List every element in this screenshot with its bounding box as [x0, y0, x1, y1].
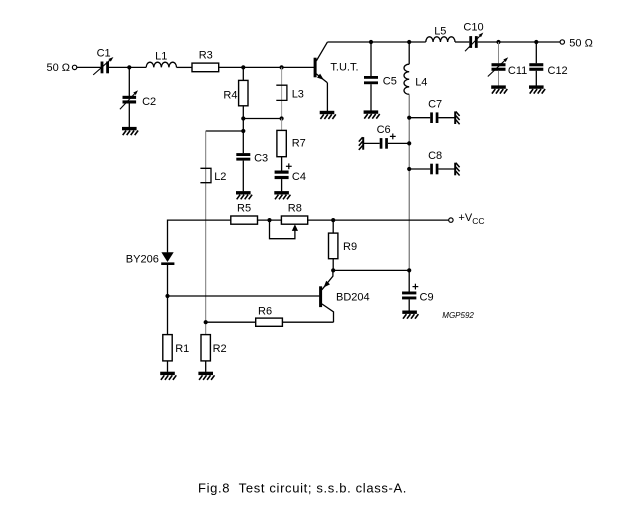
node below R4: [241, 116, 245, 120]
capacitor C4 (electrolytic): [275, 163, 292, 191]
svg-text:R7: R7: [292, 138, 306, 150]
svg-text:BY206: BY206: [126, 254, 159, 266]
resistor R1: [163, 335, 172, 361]
transistor T.U.T.: [314, 42, 328, 111]
wire base node to R1: [167, 296, 169, 335]
svg-text:C6: C6: [377, 124, 391, 136]
svg-text:L1: L1: [155, 50, 167, 62]
capacitor C6 (electrolytic feedthrough): [364, 134, 409, 149]
svg-text:R5: R5: [237, 203, 251, 215]
svg-text:C7: C7: [428, 99, 442, 111]
wire BY206 to base node: [167, 265, 169, 296]
wiper of R8: [270, 220, 299, 239]
node L2 junction: [241, 129, 245, 133]
wire node to L2 junction: [242, 119, 244, 132]
capacitor C3: [236, 131, 250, 191]
resistor R3: [192, 63, 219, 72]
inductor L4: [404, 42, 409, 94]
svg-text:50 Ω: 50 Ω: [47, 62, 71, 74]
svg-text:MGP592: MGP592: [442, 311, 474, 320]
wire R2 to ground: [205, 361, 207, 372]
resistor R5: [231, 216, 258, 224]
node C7: [407, 116, 411, 120]
svg-text:Fig.8 Test circuit; s.s.b. cl: Fig.8 Test circuit; s.s.b. class-A.: [198, 480, 407, 495]
inductor L5: [426, 37, 455, 42]
svg-text:T.U.T.: T.U.T.: [330, 62, 358, 74]
capacitor C5: [364, 42, 378, 111]
ground C2: [122, 127, 138, 135]
node A: [127, 65, 131, 69]
node R3/R4: [241, 65, 245, 69]
svg-text:C1: C1: [97, 48, 111, 60]
chassis ground C8: [455, 163, 459, 176]
svg-text:50 Ω: 50 Ω: [569, 37, 593, 49]
node C12: [534, 40, 538, 44]
capacitor C2 (trimmer): [120, 90, 138, 109]
ground C5: [364, 110, 380, 118]
input terminal: [72, 65, 76, 69]
svg-text:C2: C2: [142, 96, 156, 108]
node R9 bottom / BD204 emitter: [331, 268, 335, 272]
wire input terminal to C1: [77, 66, 101, 68]
capacitor C9 (electrolytic): [402, 270, 418, 310]
ground C12: [529, 85, 545, 93]
capacitor C7: [409, 112, 454, 123]
capacitor C10 (trimmer): [465, 33, 483, 52]
node L4 top: [407, 40, 411, 44]
svg-text:C9: C9: [420, 291, 434, 303]
svg-text:C10: C10: [463, 21, 483, 33]
node C8: [407, 167, 411, 171]
svg-text:C8: C8: [428, 150, 442, 162]
ground C4: [274, 191, 290, 199]
ground C11: [491, 85, 507, 93]
wire C10 to output terminal: [478, 41, 560, 43]
capacitor C1 (trimmer): [93, 57, 113, 75]
transistor BD204: [319, 270, 333, 322]
wire to C9 node: [333, 269, 409, 271]
svg-text:C3: C3: [254, 152, 268, 164]
svg-text:C4: C4: [292, 171, 306, 183]
inductor L2: [200, 168, 211, 182]
chassis ground C7: [455, 111, 459, 124]
node L3 top: [280, 65, 284, 69]
node C6: [407, 141, 411, 145]
node below L3: [280, 116, 284, 120]
resistor R9: [329, 220, 338, 270]
svg-text:BD204: BD204: [336, 291, 370, 303]
svg-text:R2: R2: [213, 343, 227, 355]
wire R4 node to L3 node: [243, 118, 281, 120]
inductor L3: [276, 67, 287, 118]
svg-text:+V: +V: [458, 212, 472, 224]
svg-text:R8: R8: [288, 203, 302, 215]
capacitor C11 (trimmer): [488, 42, 508, 86]
wire L5 to C10: [455, 41, 469, 43]
wire L4 to C9 node (thin): [408, 94, 410, 270]
svg-text:R6: R6: [258, 306, 272, 318]
ground C3: [236, 191, 252, 199]
wire R6 row: [206, 321, 256, 323]
node C11: [496, 40, 500, 44]
ground T.U.T. emitter: [320, 111, 336, 119]
wire C2 to ground: [128, 104, 130, 128]
node C9: [407, 268, 411, 272]
svg-text:R4: R4: [223, 90, 237, 102]
ground R1: [160, 372, 176, 380]
resistor R6: [256, 318, 283, 326]
svg-text:C12: C12: [548, 65, 568, 77]
node C5: [369, 40, 373, 44]
wire base node to BD204: [168, 295, 320, 297]
wire node A to C2: [128, 67, 130, 96]
potentiometer R8: [281, 216, 307, 224]
svg-text:L5: L5: [434, 25, 446, 37]
wire VCC rail to BY206: [168, 220, 231, 252]
svg-text:CC: CC: [472, 216, 484, 226]
node base: [165, 294, 169, 298]
svg-text:C5: C5: [383, 75, 397, 87]
node R9 top: [331, 218, 335, 222]
chassis ground C6: [359, 137, 363, 150]
node R6 left: [204, 320, 208, 324]
wire R1 to ground: [167, 361, 169, 372]
svg-text:C11: C11: [508, 65, 527, 77]
svg-text:R9: R9: [343, 241, 357, 253]
ground C9: [402, 311, 418, 319]
wire top rail collector to L5: [327, 41, 425, 43]
capacitor C8: [409, 164, 454, 175]
capacitor C12: [529, 42, 543, 86]
wire junction to L2 branch: [206, 130, 244, 132]
wire R3 to T.U.T. base: [219, 66, 314, 68]
resistor R4: [239, 67, 248, 118]
wire R5 to R8: [258, 219, 282, 221]
terminal +VCC: [449, 218, 453, 222]
resistor R2: [201, 335, 210, 361]
inductor L1: [146, 62, 176, 67]
diode BY206: [161, 252, 174, 265]
svg-text:R3: R3: [199, 49, 213, 61]
svg-text:L3: L3: [292, 88, 304, 100]
svg-text:R1: R1: [175, 343, 189, 355]
wire L2 vertical (thin): [205, 131, 207, 335]
wire C1 to node A: [109, 66, 146, 68]
resistor R7: [277, 119, 286, 171]
svg-text:L4: L4: [415, 76, 427, 88]
wire R8 to VCC terminal: [308, 219, 449, 221]
ground R2: [198, 372, 214, 380]
wire L1 to R3: [177, 66, 193, 68]
svg-text:L2: L2: [214, 171, 226, 183]
output terminal: [560, 40, 564, 44]
node R5/R8/wiper: [267, 218, 271, 222]
